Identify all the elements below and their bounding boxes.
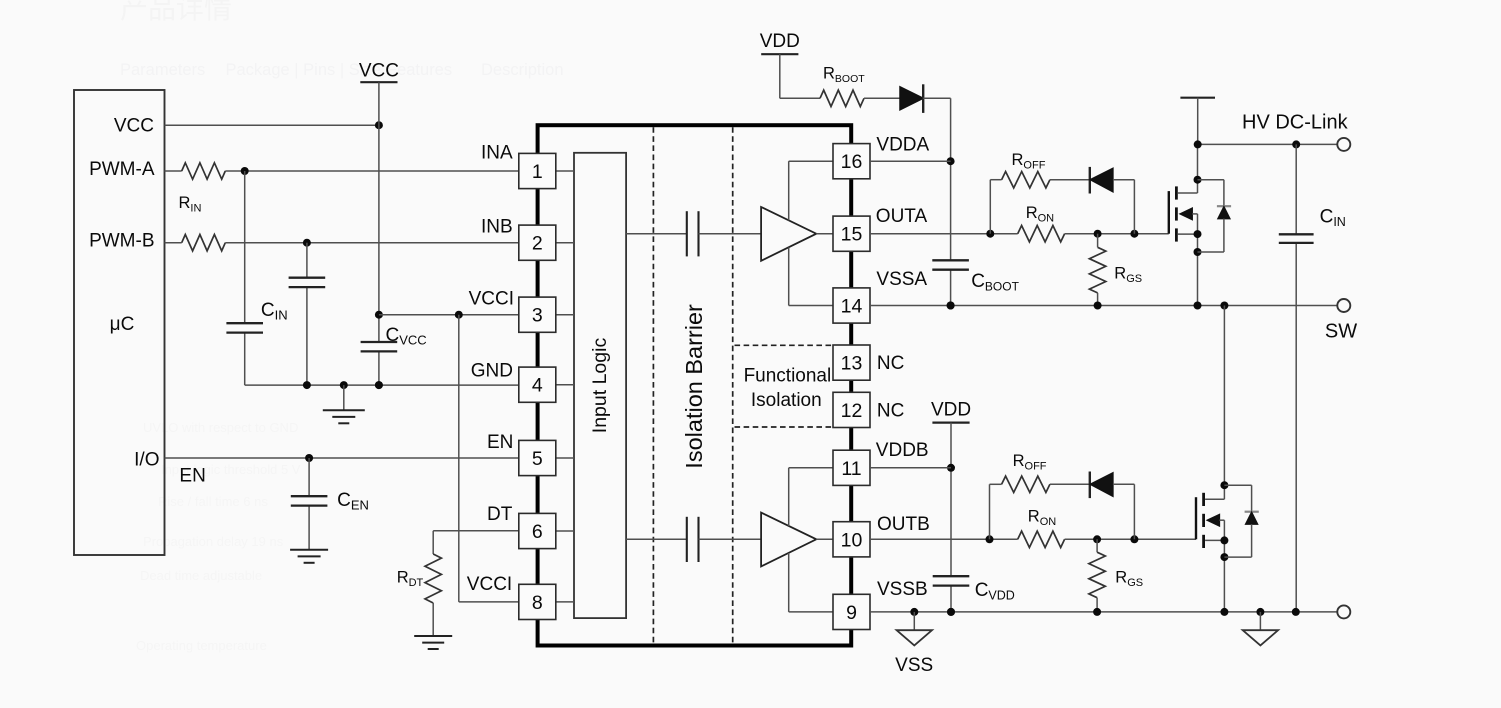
svg-text:PWM-B: PWM-B <box>89 231 154 252</box>
svg-text:OUTB: OUTB <box>877 514 930 535</box>
svg-text:DT: DT <box>487 504 513 525</box>
svg-text:4: 4 <box>532 375 543 397</box>
svg-text:Description: Description <box>481 61 564 79</box>
svg-text:GND: GND <box>471 361 513 382</box>
svg-text:EN: EN <box>179 466 205 487</box>
svg-text:VSSB: VSSB <box>877 579 928 600</box>
svg-text:INB: INB <box>481 217 513 238</box>
svg-text:5: 5 <box>532 448 543 470</box>
svg-text:SW: SW <box>1325 321 1357 343</box>
svg-text:产品详情: 产品详情 <box>120 0 232 24</box>
svg-text:12: 12 <box>841 400 863 422</box>
svg-text:11: 11 <box>841 458 861 480</box>
svg-text:8: 8 <box>532 592 543 614</box>
svg-text:EN: EN <box>487 432 513 453</box>
svg-text:Input Logic: Input Logic <box>589 338 611 434</box>
svg-text:Isolation: Isolation <box>751 390 822 411</box>
svg-text:VSSA: VSSA <box>876 269 927 290</box>
svg-text:HV DC-Link: HV DC-Link <box>1242 111 1349 133</box>
svg-text:15: 15 <box>841 224 863 246</box>
svg-text:Package | Pins | Size: Package | Pins | Size <box>226 61 381 79</box>
svg-text:NC: NC <box>877 401 904 422</box>
svg-text:VSS: VSS <box>895 655 933 676</box>
svg-text:10: 10 <box>841 529 863 551</box>
svg-text:I/O: I/O <box>134 450 159 471</box>
svg-text:UVLO with respect to GND: UVLO with respect to GND <box>143 420 298 435</box>
svg-text:Rise / fall time 6 ns: Rise / fall time 6 ns <box>158 494 268 509</box>
svg-text:VDD: VDD <box>760 31 800 52</box>
svg-text:μC: μC <box>110 314 135 335</box>
svg-text:3: 3 <box>532 305 543 327</box>
svg-text:16: 16 <box>841 151 863 173</box>
svg-text:OUTA: OUTA <box>876 206 928 227</box>
svg-text:PWM-A: PWM-A <box>89 159 155 180</box>
svg-text:2: 2 <box>532 233 543 255</box>
svg-text:VCCI: VCCI <box>469 288 514 309</box>
svg-text:INA: INA <box>481 142 513 163</box>
svg-text:VCCI: VCCI <box>467 574 512 595</box>
svg-text:VDDA: VDDA <box>876 134 929 155</box>
svg-text:Parameters: Parameters <box>120 61 205 79</box>
svg-text:1: 1 <box>532 161 543 183</box>
svg-text:14: 14 <box>841 296 863 318</box>
svg-text:Functional: Functional <box>744 366 832 387</box>
svg-text:VCC: VCC <box>114 116 154 137</box>
svg-text:6: 6 <box>532 521 543 543</box>
svg-text:VDD: VDD <box>931 400 971 421</box>
svg-text:13: 13 <box>841 353 863 375</box>
svg-text:VDDB: VDDB <box>876 440 929 461</box>
svg-text:Isolation Barrier: Isolation Barrier <box>681 304 707 469</box>
svg-text:VCC: VCC <box>359 60 399 81</box>
svg-text:NC: NC <box>877 353 904 374</box>
svg-text:Dead time adjustable: Dead time adjustable <box>140 568 262 583</box>
svg-text:9: 9 <box>846 602 857 624</box>
svg-text:Operating temperature: Operating temperature <box>136 638 267 653</box>
